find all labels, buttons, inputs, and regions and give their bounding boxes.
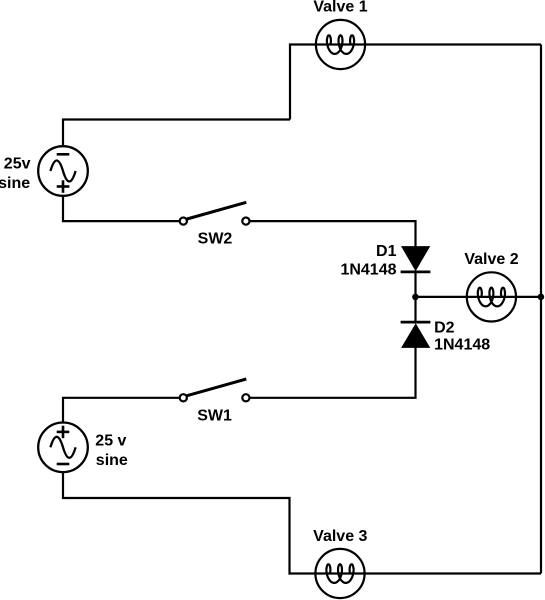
diode D2 bbox=[401, 322, 431, 347]
svg-text:SW2: SW2 bbox=[198, 231, 233, 248]
lamp Valve 3 bbox=[315, 549, 364, 598]
svg-text:1N4148: 1N4148 bbox=[340, 261, 396, 278]
wire bottom rail through Valve 3 bbox=[63, 472, 541, 573]
wire top loop: V1 top rail bbox=[290, 45, 541, 120]
wire right vertical rail bbox=[540, 45, 542, 574]
diode D1 bbox=[401, 247, 431, 272]
switch SW2 bbox=[180, 202, 250, 224]
switch SW1 bbox=[180, 379, 250, 401]
lamp Valve 1 bbox=[316, 20, 365, 69]
svg-text:D1: D1 bbox=[376, 243, 397, 260]
wire top-left from Valve 1 branch to source V1 top bbox=[63, 120, 290, 147]
wire D2 anode to SW1 right bbox=[246, 347, 416, 397]
svg-text:Valve 2: Valve 2 bbox=[464, 251, 518, 268]
lamp Valve 2 bbox=[467, 272, 516, 321]
svg-text:sine: sine bbox=[0, 175, 30, 192]
wire D1 cathode to node A bbox=[414, 272, 416, 297]
svg-text:sine: sine bbox=[96, 452, 128, 469]
svg-text:Valve 1: Valve 1 bbox=[313, 0, 367, 16]
svg-text:D2: D2 bbox=[434, 320, 455, 337]
svg-text:25 v: 25 v bbox=[95, 433, 126, 450]
svg-text:SW1: SW1 bbox=[197, 407, 232, 424]
wire SW2 right to D1 anode bbox=[246, 221, 416, 247]
svg-text:25v: 25v bbox=[4, 156, 31, 173]
wire SW1 left to source V2 top bbox=[63, 398, 183, 423]
node junction dot on right rail bbox=[538, 294, 545, 301]
svg-text:1N4148: 1N4148 bbox=[434, 337, 490, 354]
svg-text:Valve 3: Valve 3 bbox=[313, 528, 367, 545]
wire source V1 bottom to SW2 left bbox=[63, 196, 183, 221]
AC source V2 (25 v sine) bbox=[38, 423, 88, 473]
wire node A through Valve 2 to right rail bbox=[416, 296, 542, 298]
AC source V1 (25v sine) bbox=[38, 146, 88, 196]
wire node A to D2 cathode bbox=[414, 297, 416, 322]
node A junction dot (diodes/Valve2) bbox=[412, 294, 419, 301]
